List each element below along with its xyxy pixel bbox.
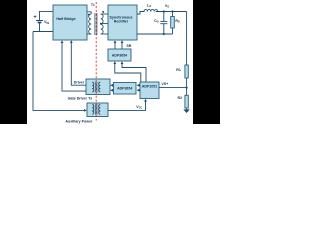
wire U3 to Gate Driver Tx arrow B bbox=[110, 89, 113, 92]
driver U3 ADP3654 (gate drive) bbox=[114, 83, 137, 95]
wire ADP1051 to U3 arrow B bbox=[137, 89, 140, 92]
wire SR drive A bbox=[114, 40, 117, 49]
block Half Bridge bbox=[53, 5, 87, 40]
transformer T1 primary winding bbox=[87, 12, 91, 34]
svg-text:RO: RO bbox=[175, 19, 180, 24]
wire ADP1051 to U3 arrow A bbox=[137, 84, 140, 87]
svg-text:Auxiliary Power: Auxiliary Power bbox=[65, 119, 93, 123]
transformer Auxiliary Power windings bbox=[92, 104, 100, 114]
transformer T1 secondary center tap bbox=[100, 23, 108, 25]
resistor Ro bbox=[171, 12, 175, 35]
node Co bottom junction bbox=[163, 33, 165, 35]
transformer T1 primary phase dot bbox=[88, 14, 90, 16]
svg-text:ADP3654: ADP3654 bbox=[112, 53, 127, 57]
label Vo bbox=[165, 4, 169, 9]
wire gate drive arrow A (to half bridge) bbox=[70, 40, 86, 85]
transformer T1 core bbox=[95, 13, 97, 35]
right black bar bbox=[193, 0, 220, 124]
svg-text:Gate Driver Tx: Gate Driver Tx bbox=[68, 97, 93, 101]
controller U1 ADP1051 bbox=[140, 82, 159, 99]
label VIN bbox=[44, 20, 49, 25]
label SR bbox=[126, 44, 131, 48]
wire Vcc (aux to ADP1051) bbox=[108, 99, 147, 111]
label Driver bbox=[74, 81, 85, 85]
svg-text:R2: R2 bbox=[177, 96, 182, 100]
wire SR drive B bbox=[121, 40, 124, 49]
transformer Gate Driver Tx windings bbox=[92, 82, 100, 92]
svg-text:Driver: Driver bbox=[74, 81, 85, 85]
wire auxiliary feed (left drop) bbox=[33, 32, 87, 112]
svg-text:Half Bridge: Half Bridge bbox=[56, 17, 75, 21]
svg-text:VO: VO bbox=[165, 4, 169, 9]
label Lo bbox=[147, 4, 151, 9]
svg-text:Synchronous: Synchronous bbox=[110, 15, 133, 19]
svg-text:CO: CO bbox=[154, 19, 159, 24]
isolation barrier (red dashed) bbox=[95, 2, 97, 121]
wire ADP1051 SR1 to U2 bbox=[113, 61, 140, 81]
svg-text:ADP3654: ADP3654 bbox=[117, 87, 132, 91]
wire VS+ sense bbox=[159, 87, 187, 89]
label Vcc bbox=[136, 105, 142, 110]
transformer T1 secondary winding lower bbox=[101, 24, 108, 34]
driver U2 ADP3654 (synchronous rectifier driver) bbox=[108, 49, 131, 61]
node Co top junction bbox=[163, 10, 165, 12]
ground bbox=[183, 109, 190, 114]
wire U3 to Gate Driver Tx arrow A bbox=[110, 84, 113, 87]
transformer Auxiliary Power box bbox=[87, 103, 108, 117]
label T1 bbox=[91, 3, 95, 7]
wire ADP1051 SR2 to U2 bbox=[121, 61, 146, 81]
svg-text:LO: LO bbox=[147, 4, 151, 9]
label Auxiliary Power bbox=[65, 119, 93, 123]
svg-text:VCC: VCC bbox=[136, 105, 142, 110]
svg-text:ADP1051: ADP1051 bbox=[142, 85, 157, 89]
label R2 bbox=[177, 96, 182, 100]
node Ro top junction bbox=[171, 10, 173, 12]
svg-text:VIN: VIN bbox=[44, 20, 49, 25]
wire gate drive arrow B (to half bridge) bbox=[61, 40, 86, 91]
wire SR output top bbox=[137, 12, 145, 15]
capacitor Co bbox=[160, 12, 167, 35]
wire Vo rail bbox=[156, 11, 187, 13]
resistor R1 bbox=[185, 65, 188, 78]
inductor Lo bbox=[144, 9, 158, 11]
transformer T1 secondary winding upper bbox=[101, 14, 108, 24]
label R1 bbox=[176, 68, 181, 72]
source V1 battery bars bbox=[36, 21, 43, 23]
left black bar bbox=[0, 0, 27, 124]
label VS+ bbox=[161, 82, 168, 86]
label Co bbox=[154, 19, 159, 24]
wire Vin bottom lead bbox=[39, 23, 41, 32]
wire Vin top lead bbox=[40, 11, 54, 20]
wire Vo sense drop bbox=[186, 12, 188, 66]
resistor R2 bbox=[185, 95, 188, 108]
transformer T1 secondary phase dot bbox=[102, 11, 104, 13]
svg-text:R1: R1 bbox=[176, 68, 181, 72]
block Synchronous Rectifier bbox=[108, 5, 137, 40]
node VS+ junction bbox=[186, 87, 188, 89]
wire Vin bottom rail bbox=[33, 31, 53, 33]
wire output bottom rail bbox=[137, 33, 173, 35]
label Ro bbox=[175, 19, 180, 24]
svg-text:Rectifier: Rectifier bbox=[114, 20, 129, 24]
source V1 plus sign bbox=[34, 15, 37, 18]
svg-text:T1: T1 bbox=[91, 3, 95, 7]
svg-text:SR: SR bbox=[126, 44, 131, 48]
wire R1 to R2 bbox=[186, 78, 188, 96]
label Gate Driver Tx bbox=[68, 97, 93, 101]
transformer Gate Driver Tx box bbox=[86, 79, 110, 95]
svg-text:VS+: VS+ bbox=[161, 82, 168, 86]
